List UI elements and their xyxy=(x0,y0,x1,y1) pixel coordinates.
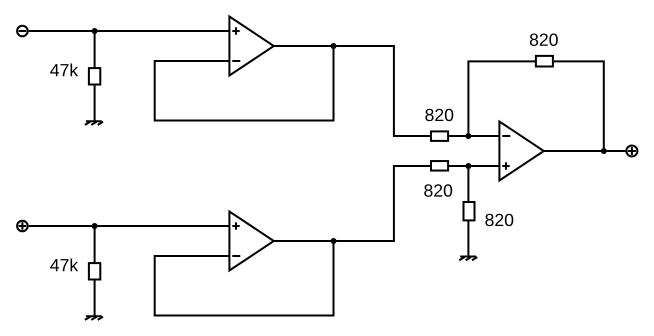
resistor R3 820 (to U3 inverting input) xyxy=(431,131,448,141)
wire R6 to output node xyxy=(554,61,604,151)
node D (junction dot U2 output) xyxy=(331,238,337,244)
resistor R6 820 (feedback) xyxy=(536,56,553,67)
wire U3 output to terminal P3 xyxy=(544,150,627,152)
wire node E up to feedback resistor R6 xyxy=(468,61,535,136)
wire node C down to R2 xyxy=(94,226,96,264)
label 820 for R4 xyxy=(424,184,452,196)
node G (junction dot at output) xyxy=(601,148,607,154)
wire R4 to U3 noninverting input xyxy=(449,165,499,167)
label 820 for R6 xyxy=(530,34,558,46)
wire P1 to op-amp U1 noninverting input xyxy=(29,30,230,32)
wire R3 to U3 inverting input xyxy=(449,135,499,137)
node F (junction dot, noninverting input net) xyxy=(465,163,471,169)
node C (junction dot at R2) xyxy=(92,223,98,229)
wire R5 to ground xyxy=(467,221,469,257)
resistor R4 820 (to U3 noninverting input) xyxy=(431,161,448,171)
wire R2 to ground xyxy=(94,281,96,317)
wire U1 feedback (inverting input loop) xyxy=(155,46,334,121)
ground GND1 xyxy=(85,121,103,125)
wire P2 to op-amp U2 noninverting input xyxy=(29,225,230,227)
node B (junction dot U1 output) xyxy=(331,43,337,49)
resistor R1 47k xyxy=(89,68,100,84)
terminal P3 (output, plus) xyxy=(626,146,637,157)
wire U2 output to R4 xyxy=(274,166,430,241)
op-amp U1 xyxy=(229,17,273,76)
wire U1 output to R3 xyxy=(274,46,430,136)
ground GND3 xyxy=(459,257,477,261)
op-amp U3 xyxy=(499,122,543,181)
label 820 for R3 xyxy=(425,109,453,121)
ground GND2 xyxy=(85,316,103,320)
op-amp U2 xyxy=(229,212,273,271)
resistor R5 820 (to ground) xyxy=(464,202,475,220)
terminal P1 (inverting input, minus) xyxy=(17,26,28,37)
node A (junction dot at R1) xyxy=(92,28,98,34)
label 47k for R2 xyxy=(50,258,78,271)
label 820 for R5 xyxy=(485,214,513,226)
wire U2 feedback (inverting input loop) xyxy=(155,241,334,316)
wire R1 to ground xyxy=(94,86,96,122)
resistor R2 47k xyxy=(89,263,100,279)
label 47k for R1 xyxy=(50,63,78,76)
terminal P2 (noninverting input, plus) xyxy=(17,221,28,232)
wire node A down to R1 xyxy=(94,31,96,69)
wire node F down to R5 xyxy=(467,166,469,201)
node E (junction dot, inverting input net) xyxy=(465,133,471,139)
